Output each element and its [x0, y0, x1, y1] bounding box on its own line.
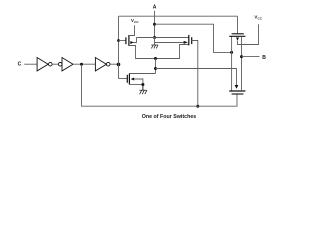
wire Q2 body lead — [134, 79, 143, 85]
wire vertical rail inverted control — [118, 16, 120, 78]
node dot A branch — [153, 23, 156, 26]
wire top control line — [119, 15, 238, 17]
node dot substrate bus at A vertical — [153, 36, 156, 39]
transistor Q2 gate bar — [126, 75, 128, 83]
wire well vertical — [155, 59, 157, 74]
wire C to inverter 1 — [24, 63, 37, 65]
transistor Q3 body arrow — [184, 41, 188, 44]
node dot M1 gate tap — [117, 39, 120, 42]
transistor Q5 gate bar — [232, 93, 244, 95]
wire M2 drain — [129, 73, 155, 75]
bubble inverter 2 input — [58, 62, 62, 66]
inverter 1 — [37, 58, 48, 71]
wire inverter3 to rail — [110, 63, 119, 65]
node dot Q3 gate on bottom rail — [196, 105, 199, 108]
bubble inverter 3 output — [106, 62, 110, 66]
svg-text:B: B — [262, 55, 266, 61]
transistor Q4 channel bar — [229, 35, 245, 37]
transistor Q2 body arrow — [131, 78, 135, 81]
transistor Q4 gate bar — [232, 33, 244, 35]
wire substrate stub — [154, 38, 156, 46]
wire M1 gate — [119, 40, 126, 42]
ground below Q2 — [139, 85, 147, 95]
transistor Q3 gate bar — [191, 37, 193, 44]
wire terminal A vertical — [154, 11, 156, 38]
wire well to M5 body — [156, 69, 237, 86]
svg-text:CC: CC — [134, 20, 139, 24]
transistor Q5 channel bar — [229, 90, 245, 92]
inverter 2 — [62, 58, 73, 71]
transistor Q4 body arrow — [236, 38, 239, 41]
wire substrate bus — [137, 37, 189, 39]
transistor Q2 channel bar — [128, 74, 130, 85]
svg-text:One of Four Switches: One of Four Switches — [142, 114, 196, 120]
wire Q4 body to VCC — [238, 24, 259, 44]
node dot well branch — [154, 67, 157, 70]
inverter 3 — [95, 58, 106, 71]
wire Q1 source down and across to Q3 source — [129, 45, 189, 59]
node dot well at source bus — [154, 57, 157, 60]
wire inverter2 to inverter3 — [73, 63, 95, 65]
wire Q1 drain to VCC — [129, 25, 135, 35]
wire A-net vertical M4 left leg to M5 left leg — [231, 36, 233, 91]
node dot Q2 source-body — [141, 83, 144, 86]
node junction dot inv2 output — [80, 63, 83, 66]
bubble inverter 1 output — [49, 62, 53, 66]
transistor Q5 body arrow — [235, 85, 239, 89]
wire M1 body jog — [133, 38, 136, 43]
wire to B terminal — [242, 56, 260, 58]
wire B-net vertical right legs — [241, 36, 243, 91]
node junction dot inv3 output on rail — [117, 63, 121, 67]
svg-text:CC: CC — [258, 16, 263, 20]
wire M2 gate — [119, 78, 128, 80]
node dot B branch — [240, 55, 243, 58]
wire A to switch left side — [155, 24, 232, 52]
transistor Q3 channel bar — [188, 35, 190, 46]
wire body wire to Q3 — [155, 42, 184, 44]
svg-text:C: C — [18, 61, 22, 67]
transistor Q1 gate bar — [125, 37, 127, 44]
wire bottom rail buffered control — [82, 65, 238, 107]
node dot A at M4 left leg — [230, 51, 233, 54]
wire Q3 gate — [192, 41, 198, 107]
svg-text:A: A — [153, 4, 157, 10]
wire Q2 source — [129, 84, 143, 86]
ground substrate symbol — [151, 45, 158, 48]
transistor Q1 body arrow — [130, 41, 134, 44]
wire inverter1 to inverter2 — [52, 63, 58, 65]
transistor Q1 channel bar — [128, 35, 130, 46]
wire M4 gate stem — [237, 16, 239, 34]
